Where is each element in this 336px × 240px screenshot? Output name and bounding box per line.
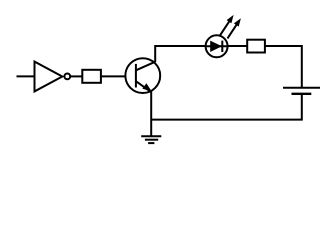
- wire: bottom rail ground to battery negative: [151, 94, 302, 120]
- wire: emitter down to ground: [150, 91, 152, 136]
- wire: resistor R1 to transistor base: [100, 75, 136, 77]
- inverter U1 triangle: [35, 62, 63, 92]
- wire: top rail collector to battery: [155, 46, 302, 88]
- transistor Q1 base bar: [135, 64, 137, 88]
- LED D1 internal wire: [206, 45, 228, 47]
- resistor R1: [82, 70, 101, 83]
- battery B1 negative plate: [292, 93, 312, 95]
- inverter U1 output bubble: [64, 74, 70, 80]
- LED D1 light arrow 1 head: [227, 15, 234, 23]
- LED D1 cathode bar: [221, 41, 223, 52]
- wire: inverter bubble to resistor R1: [69, 75, 84, 77]
- ground G1 bar 2: [145, 139, 158, 141]
- transistor Q1 circle: [125, 58, 160, 93]
- LED D1 light arrow 1 shaft: [220, 20, 230, 35]
- resistor R2: [247, 40, 265, 53]
- transistor Q1 emitter lead: [136, 81, 151, 92]
- wire: input to inverter: [17, 75, 35, 77]
- battery B1 positive plate: [283, 87, 320, 89]
- LED D1 light arrow 2 shaft: [228, 24, 238, 39]
- ground G1 bar 1: [141, 135, 161, 137]
- LED D1 circle: [206, 35, 228, 57]
- transistor Q1 emitter arrowhead: [142, 83, 151, 91]
- ground G1 bar 3: [148, 142, 154, 144]
- LED D1 anode triangle: [210, 41, 222, 52]
- LED D1 light arrow 2 head: [234, 18, 241, 26]
- transistor Q1 collector lead: [136, 62, 156, 71]
